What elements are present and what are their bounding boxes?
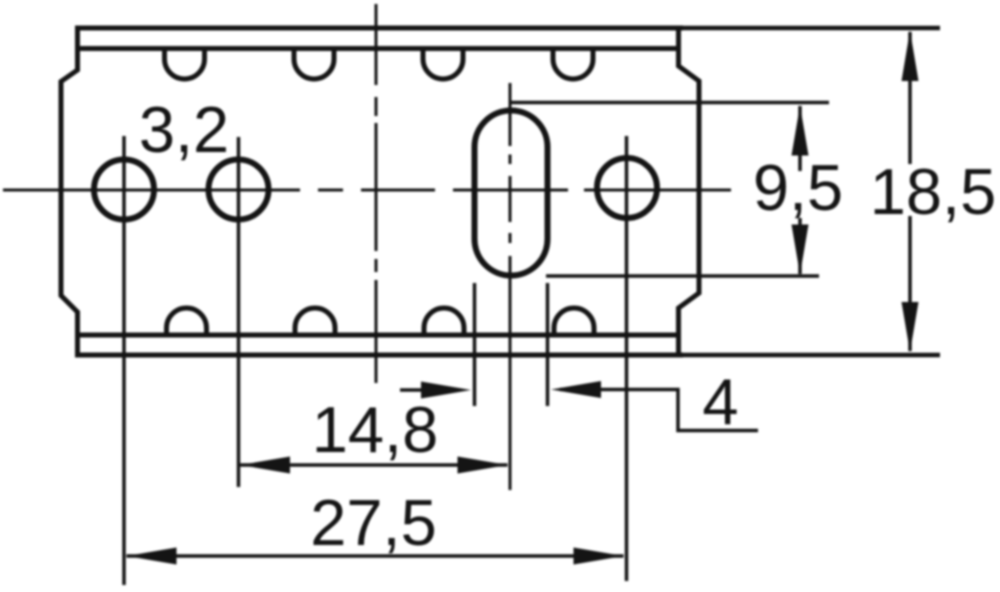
arrowhead 27,5 right (574, 548, 624, 565)
top notch 3 (423, 51, 463, 79)
svg-text:18,5: 18,5 (870, 155, 997, 228)
arrowhead 18,5 down (902, 302, 919, 352)
svg-text:14,8: 14,8 (312, 393, 439, 466)
dimension 9,5 shaft (798, 106, 802, 274)
top notch 2 (294, 51, 334, 79)
slot right edge extension line (546, 283, 550, 406)
top notch 4 (553, 51, 593, 79)
arrowhead 27,5 left (127, 548, 177, 565)
vertical centerline (dash-dot) (375, 4, 378, 383)
strip inner top fold line (78, 46, 679, 51)
bottom notch 2 (295, 308, 335, 335)
top notch 1 (165, 51, 205, 79)
bottom edge extension line (for 18,5) (683, 353, 940, 358)
horizontal centerline (dash-dot) (3, 189, 731, 192)
hole 2 (3.2 dia) (209, 160, 269, 220)
slot bottom extension line (for 9,5) (546, 274, 819, 278)
arrowhead 14,8 left (240, 457, 290, 474)
top edge extension line (for 18,5) (683, 26, 940, 31)
arrowhead 9,5 down (792, 225, 809, 275)
arrowhead 9,5 up (792, 106, 809, 156)
slot (oval hole) (475, 111, 548, 276)
hole 2 centerline / extension line (237, 137, 241, 487)
hole 1 centerline / extension line (122, 136, 126, 585)
slot left edge extension line (473, 283, 477, 406)
slot centerline / extension line (dash-dot) (509, 83, 512, 490)
bottom notch 4 (554, 308, 594, 335)
strip inner bottom fold line (78, 333, 679, 338)
bottom notch 3 (424, 308, 464, 335)
dimension line 14,8 (240, 463, 508, 467)
arrowhead 18,5 up (902, 31, 919, 82)
arrowhead 14,8 right (458, 457, 508, 474)
hole 3 (3.2 dia) (597, 158, 657, 218)
arrowhead 4 pointing left (551, 381, 601, 398)
svg-text:4: 4 (702, 365, 738, 438)
svg-text:27,5: 27,5 (310, 486, 437, 559)
bottom notch 1 (167, 308, 207, 335)
arrowhead 4 pointing right (421, 382, 471, 399)
dimension 4 right arrow shaft and leader (560, 390, 758, 431)
dimension line 27,5 (127, 554, 624, 558)
strip outer contour (61, 28, 699, 355)
svg-text:3,2: 3,2 (139, 93, 229, 166)
dimension 18,5 shaft (908, 32, 912, 351)
hole 3 centerline / extension line (625, 136, 629, 581)
svg-text:9,5: 9,5 (753, 151, 843, 224)
slot top extension line (for 9,5) (510, 101, 829, 105)
dimension 4 left arrow shaft (400, 388, 460, 392)
hole 1 (3.2 dia) (94, 160, 154, 220)
